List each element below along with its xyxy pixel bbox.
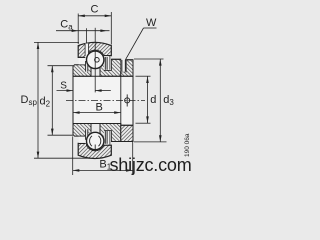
- Ca dim line: [56, 30, 110, 32]
- collar top edge: [126, 59, 133, 61]
- set screw top slot white: [121, 60, 126, 72]
- svg-text:C: C: [91, 4, 99, 16]
- seal channel white left bottom: [85, 129, 88, 143]
- collar right face: [132, 60, 134, 142]
- W leader: [144, 27, 157, 29]
- inner ring bottom right shoulder (hatched \): [100, 124, 121, 142]
- d2 extension + dim: [48, 65, 74, 67]
- set screw body: [121, 60, 123, 72]
- seal recess white right bottom: [104, 131, 111, 145]
- left seal lines top: [85, 61, 87, 72]
- top ball: [87, 51, 104, 68]
- outer ring top section (hatched /): [78, 42, 111, 57]
- S dim: [57, 90, 73, 92]
- C dim line: [78, 15, 111, 17]
- bottom ball cage arcs: [90, 136, 92, 146]
- B1 ext + dim: [72, 136, 74, 175]
- seal recess white right top: [104, 56, 111, 70]
- svg-text:W: W: [146, 17, 157, 29]
- bore bottom edge (stepped): [73, 123, 121, 125]
- inner ring left face line: [72, 66, 74, 134]
- Dsp extension + dim: [34, 41, 79, 43]
- shoulder edge under right recess: [104, 69, 112, 71]
- inner ring top right shoulder / extension (hatched \): [100, 59, 121, 76]
- seal recess white left top: [79, 58, 86, 65]
- svg-text:d: d: [150, 94, 156, 106]
- svg-text:B: B: [96, 102, 103, 114]
- dimension lines: [34, 12, 167, 175]
- centerline dash-dot: [66, 99, 145, 101]
- d3 ext + dim: [134, 58, 164, 60]
- left seal lines bottom: [85, 129, 87, 140]
- C extension lines: [77, 14, 79, 45]
- lube channel edge lines: [84, 44, 86, 56]
- inner ext top edge: [112, 58, 121, 60]
- svg-text:shijzc.com: shijzc.com: [110, 155, 192, 175]
- right seal lines bottom: [104, 131, 106, 144]
- set screw crosshair: [125, 94, 130, 106]
- d ext + dim: [136, 75, 151, 77]
- bottom ball: [87, 132, 104, 149]
- collar bottom (hatched /): [121, 125, 133, 141]
- raceway cut around bottom ball: [86, 132, 105, 151]
- collar top (hatched \): [121, 60, 133, 77]
- svg-text:190 06a: 190 06a: [184, 133, 191, 157]
- inner ring top left shoulder (hatched \): [73, 65, 91, 77]
- outer ring bottom section (hatched /): [78, 143, 111, 158]
- seal recess white left bottom: [79, 137, 86, 144]
- inner ring right face through bore: [120, 76, 122, 125]
- top ball cage mark: [95, 58, 100, 63]
- svg-text:S: S: [60, 81, 67, 92]
- right seal lines top: [104, 57, 106, 70]
- lube/seal channel white left top: [85, 43, 88, 71]
- B dim: [73, 112, 121, 114]
- bore top edge: [73, 75, 133, 77]
- shoulder edge above right recess bottom: [104, 129, 112, 131]
- Ca/ball extension verticals: [86, 28, 88, 43]
- raceway cut around top ball: [86, 50, 105, 69]
- inner ring bottom left shoulder (hatched \): [73, 124, 91, 137]
- bore white band: [73, 76, 133, 124]
